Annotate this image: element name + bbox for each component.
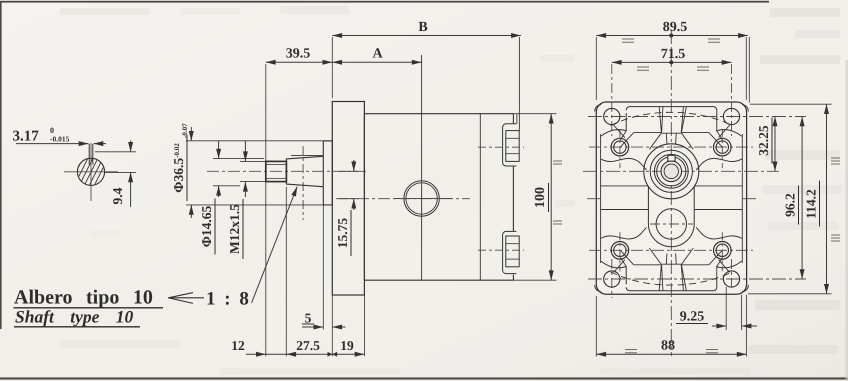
side port lower-left bbox=[611, 242, 629, 260]
bottom port boss bbox=[503, 231, 517, 273]
taper symbol 1:8 bbox=[168, 297, 204, 299]
shaft section vertical centerline bbox=[90, 143, 92, 201]
taper keyway line bbox=[291, 155, 323, 157]
svg-text:100: 100 bbox=[533, 187, 548, 208]
svg-text:5: 5 bbox=[305, 311, 312, 326]
bottom band tab separators bbox=[659, 265, 663, 291]
dim 114.2 bbox=[750, 103, 832, 105]
extension lines above side view bbox=[265, 64, 267, 161]
svg-text:96.2: 96.2 bbox=[783, 193, 798, 217]
mid pocket left bbox=[601, 186, 649, 210]
surface marks front top bbox=[622, 39, 720, 70]
pocket curves upper-left bbox=[601, 130, 627, 137]
dim 15.75 bbox=[339, 170, 359, 172]
svg-text:32.25: 32.25 bbox=[756, 125, 771, 156]
top hidden gasket dashed line bbox=[611, 112, 733, 125]
svg-text:89.5: 89.5 bbox=[663, 20, 688, 35]
dim 5 bbox=[302, 326, 323, 328]
pump body side view bbox=[364, 114, 513, 281]
svg-text:19: 19 bbox=[340, 338, 354, 353]
dim 12 27.5 19 chain bbox=[246, 353, 365, 355]
dim 9.4 line bbox=[130, 141, 132, 152]
bearing boss ring bbox=[650, 150, 692, 192]
svg-text:9.25: 9.25 bbox=[680, 310, 705, 325]
dim 100 bbox=[513, 113, 556, 115]
bolt hole top-left bbox=[604, 108, 620, 124]
front view bolt row centerline bottom bbox=[588, 278, 806, 280]
center tab drop lines bbox=[666, 133, 676, 143]
left border line bbox=[0, 1, 2, 329]
dim B bbox=[332, 35, 521, 37]
taper leader line 1:8 bbox=[252, 187, 298, 304]
flange face pad edges bbox=[600, 134, 602, 263]
dim 9.4 extension lines bbox=[95, 151, 136, 153]
mounting flange side view bbox=[332, 102, 364, 296]
svg-text:-0.015: -0.015 bbox=[50, 135, 70, 144]
shaft keyway slot bbox=[88, 144, 90, 165]
dim 32.25 bbox=[774, 117, 776, 172]
bottom web diagonals bbox=[621, 248, 662, 265]
side port upper-left bbox=[611, 138, 629, 156]
top band tab separators bbox=[659, 107, 663, 133]
pocket curves upper-right bbox=[716, 130, 742, 137]
front view port row centerline top bbox=[589, 146, 753, 148]
body joint line rear bbox=[479, 114, 481, 281]
bolt hole bottom-right bbox=[723, 271, 739, 287]
pilot boss phi36.5 bbox=[323, 141, 332, 205]
taper section of shaft bbox=[286, 156, 323, 186]
svg-text:9.4: 9.4 bbox=[110, 187, 125, 204]
scan noise smudges bbox=[60, 8, 150, 15]
threaded shaft end M12 bbox=[266, 161, 287, 181]
side port upper-right bbox=[714, 138, 732, 156]
bottom center tab drop lines bbox=[666, 253, 676, 264]
top band bottom edges bbox=[634, 132, 709, 134]
mid pocket centerline stubs bbox=[587, 198, 601, 200]
svg-text:71.5: 71.5 bbox=[661, 47, 686, 62]
taper gauge dash line bbox=[302, 146, 304, 220]
body joint line front bbox=[421, 55, 423, 280]
top bolt web diagonals bbox=[614, 125, 730, 138]
svg-text:B: B bbox=[418, 20, 427, 35]
shaft bore inner ring bbox=[664, 164, 678, 178]
dim 88 bbox=[595, 296, 597, 357]
bolt hole top-right bbox=[723, 108, 739, 124]
surface marks right side bbox=[831, 158, 840, 241]
top port boss bbox=[516, 114, 518, 124]
lower gear horizontal centerline bbox=[650, 223, 693, 225]
dim 9.25 bbox=[725, 287, 727, 330]
shaft section circle bbox=[77, 158, 104, 185]
svg-text:-0.07: -0.07 bbox=[181, 123, 189, 138]
dim M12x1.5 bbox=[244, 141, 246, 161]
bottom port centerline bbox=[478, 249, 524, 251]
svg-text:114.2: 114.2 bbox=[804, 189, 819, 219]
surface marks front bottom bbox=[625, 350, 718, 353]
drain port centerlines bbox=[421, 155, 423, 245]
bolt column centerline left bbox=[611, 64, 613, 136]
svg-text:A: A bbox=[372, 47, 383, 62]
svg-text:3.17: 3.17 bbox=[13, 129, 40, 145]
svg-text:Φ14.65: Φ14.65 bbox=[199, 205, 214, 247]
bottom border line bbox=[0, 377, 848, 379]
rear body corner fragments bbox=[595, 105, 749, 292]
bottom hidden gasket dashed line bbox=[611, 272, 733, 285]
svg-text:27.5: 27.5 bbox=[296, 338, 320, 353]
right edge shading bbox=[846, 60, 848, 381]
dim 71.5 bbox=[612, 61, 732, 63]
front view bolt row centerline top bbox=[588, 116, 806, 118]
side view shaft centerline bbox=[207, 170, 368, 172]
gear chamber obround bbox=[648, 187, 694, 247]
bolt column centerline right bbox=[731, 64, 733, 136]
bolt hole bottom-left bbox=[604, 271, 620, 287]
top machined pad band bbox=[626, 107, 717, 120]
dim A bbox=[332, 61, 421, 63]
dim 39.5 bbox=[266, 61, 333, 63]
top border line bbox=[0, 1, 769, 3]
front view vertical centerline bbox=[670, 30, 672, 356]
mid pocket right bbox=[694, 186, 742, 210]
top port centerline bbox=[478, 146, 524, 148]
dim 3.17 lines bbox=[16, 143, 89, 145]
svg-text:15.75: 15.75 bbox=[335, 218, 350, 249]
svg-text:M12x1.5: M12x1.5 bbox=[227, 204, 242, 254]
svg-text:88: 88 bbox=[661, 339, 675, 354]
pocket curves lower-left bbox=[601, 261, 627, 268]
dim phi36.5 bbox=[190, 127, 192, 141]
svg-text:12: 12 bbox=[231, 338, 245, 353]
svg-text:1 : 8: 1 : 8 bbox=[206, 289, 251, 310]
shaft section hatching bbox=[46, 142, 141, 202]
surface marks near 100 dim bbox=[553, 161, 562, 224]
pocket curves lower-right bbox=[716, 261, 742, 268]
bottom band top edges bbox=[634, 264, 709, 266]
dim 89.5 bbox=[596, 35, 748, 37]
bearing rings bbox=[654, 154, 688, 188]
svg-text:Albero tipo 10: Albero tipo 10 bbox=[14, 287, 153, 309]
shaft circle with keyway bbox=[661, 161, 682, 182]
bottom machined pad band bbox=[626, 277, 717, 290]
dim phi14.65 bbox=[218, 141, 220, 159]
dim 96.2 bbox=[801, 117, 803, 280]
front flange outline bbox=[596, 102, 746, 294]
svg-text:Shaft type 10: Shaft type 10 bbox=[15, 307, 134, 327]
front view shaft horizontal centerline bbox=[583, 170, 779, 172]
top web diagonals bbox=[621, 133, 662, 150]
side port lower-right bbox=[714, 242, 732, 260]
lower gear circle bbox=[656, 209, 686, 239]
drain port circle bbox=[404, 181, 439, 216]
extension lines below side view bbox=[265, 182, 267, 357]
side view body centerline bbox=[336, 198, 470, 200]
bottom bolt web diagonals bbox=[614, 260, 730, 273]
shaft section horizontal centerline bbox=[64, 171, 118, 173]
front view port row centerline bottom bbox=[589, 249, 753, 251]
svg-text:39.5: 39.5 bbox=[286, 47, 311, 62]
bearing boss outer circle bbox=[644, 144, 699, 199]
